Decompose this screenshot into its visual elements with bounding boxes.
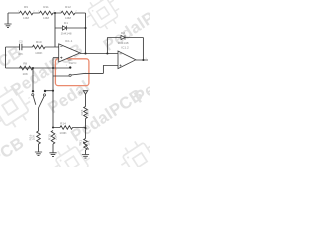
svg-text:R10: R10 [36, 40, 42, 44]
watermark logo tile bottom-right [115, 135, 166, 186]
op-amp IC1.1 [59, 44, 80, 62]
svg-text:C3: C3 [19, 39, 23, 43]
svg-text:10K: 10K [87, 139, 91, 145]
resistor R16 vertical [37, 131, 41, 144]
resistor R9 [20, 11, 34, 15]
ground top-left [4, 24, 11, 28]
svg-text:100K: 100K [35, 51, 43, 55]
svg-text:1: 1 [145, 58, 146, 60]
junction nodes [32, 12, 145, 129]
svg-text:100K: 100K [85, 108, 89, 116]
resistor R10 [33, 45, 46, 49]
watermark logo tile mid-left [0, 79, 38, 134]
diode D2 [121, 35, 125, 40]
ground left-bottom [35, 152, 42, 156]
switch contact B dot [44, 90, 46, 92]
svg-text:1: 1 [66, 65, 67, 67]
resistor R13 vertical [51, 131, 55, 145]
svg-text:D1: D1 [64, 21, 68, 25]
switch contact A dot [32, 90, 34, 92]
svg-text:R13: R13 [47, 134, 51, 140]
svg-text:1N4148: 1N4148 [61, 32, 72, 36]
diode D1 [62, 26, 66, 31]
svg-text:2: 2 [75, 11, 76, 13]
highlight box around switch SW1.C [55, 59, 89, 86]
resistor R11 [40, 11, 54, 15]
switch SW1.C throw contact [69, 66, 71, 68]
svg-text:R12: R12 [65, 5, 71, 9]
switch contact B pivot [43, 94, 45, 96]
svg-text:R15: R15 [80, 109, 84, 115]
svg-text:10K: 10K [32, 134, 36, 140]
svg-text:IC1.1: IC1.1 [65, 39, 73, 43]
op-amp IC1.2 [118, 51, 136, 69]
svg-text:IC1.2: IC1.2 [121, 46, 129, 50]
resistor R12 [61, 11, 75, 15]
svg-text:TR1: TR1 [78, 140, 82, 146]
svg-text:2: 2 [28, 98, 29, 100]
svg-text:1: 1 [18, 11, 19, 13]
svg-text:10K: 10K [22, 72, 28, 76]
svg-text:1: 1 [38, 11, 39, 13]
svg-text:1: 1 [59, 11, 60, 13]
rotated labels [29, 108, 91, 146]
net port VB [83, 91, 87, 95]
svg-text:R9: R9 [24, 5, 28, 9]
resistor R8 [20, 66, 34, 70]
svg-text:10M: 10M [23, 16, 29, 20]
svg-text:R14: R14 [60, 121, 66, 125]
component labels [18, 5, 147, 135]
watermark logo tile bottom-middle [48, 139, 97, 188]
svg-text:R11: R11 [43, 5, 49, 9]
svg-text:D2: D2 [121, 31, 125, 35]
trimmer TR1 [84, 139, 88, 151]
switch SW1.C common pivot [69, 74, 71, 76]
svg-text:R8: R8 [23, 61, 27, 65]
svg-text:VB: VB [79, 90, 83, 94]
svg-text:47n: 47n [18, 52, 23, 56]
svg-text:PedalPCB: PedalPCB [0, 134, 28, 167]
svg-text:2: 2 [54, 11, 55, 13]
svg-text:SW.C: SW.C [69, 61, 78, 65]
resistor R15 vertical [84, 107, 88, 119]
svg-text:100K: 100K [59, 131, 67, 135]
switch contact A pivot [32, 94, 34, 96]
svg-text:2: 2 [33, 11, 34, 13]
watermark wordmark diagonal left [0, 0, 210, 194]
svg-text:10M: 10M [65, 16, 71, 20]
svg-text:10M: 10M [43, 16, 49, 20]
ground mid-bottom [49, 153, 56, 157]
svg-text:20K: 20K [53, 134, 57, 140]
svg-text:1N4148: 1N4148 [118, 41, 129, 45]
ground right-bottom [82, 155, 89, 159]
capacitor C3 [20, 44, 22, 50]
watermark logo tile top-middle [81, 0, 125, 35]
resistor R14 [60, 126, 73, 130]
wire segments [6, 13, 149, 155]
pin numbers [18, 11, 147, 100]
